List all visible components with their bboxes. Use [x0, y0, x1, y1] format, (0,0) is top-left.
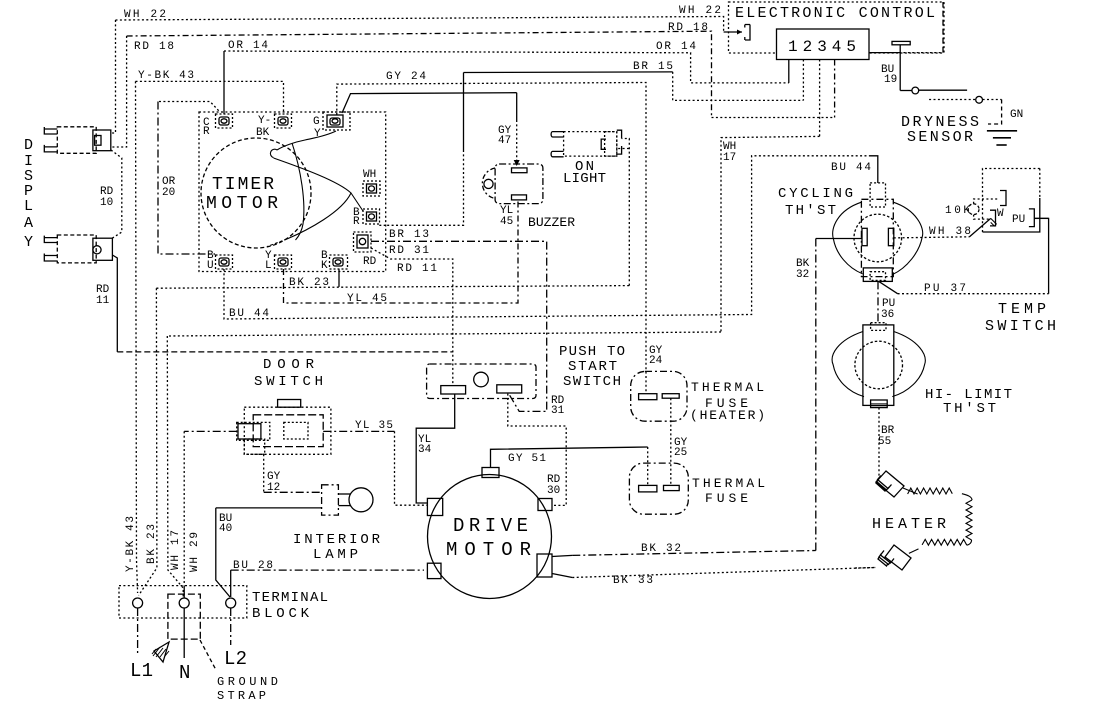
svg-text:(HEATER): (HEATER) [690, 408, 765, 423]
svg-text:Y-BK 43: Y-BK 43 [125, 516, 137, 572]
wire BR15 upper run [379, 72, 803, 225]
thermal fuse lower [629, 463, 688, 514]
wire BU44 [224, 156, 878, 319]
electronic control box [729, 2, 945, 53]
svg-text:BK 23: BK 23 [289, 277, 329, 289]
svg-text:WH 29: WH 29 [189, 532, 201, 572]
wire L2 [230, 608, 232, 645]
svg-text:BR 15: BR 15 [633, 61, 673, 73]
connector bar dryness lead [892, 41, 910, 90]
temp switch wiper W [990, 210, 997, 226]
svg-text:W: W [997, 208, 1004, 220]
wire RD30 [508, 394, 566, 506]
svg-text:L: L [265, 260, 272, 272]
wire OR14 bus [224, 51, 789, 114]
pin 3 lead [819, 60, 821, 137]
timer terminal B/U [216, 255, 233, 269]
wire N [183, 608, 185, 658]
svg-text:BU 28: BU 28 [233, 560, 273, 572]
svg-text:YL 35: YL 35 [355, 420, 393, 432]
svg-text:PU: PU [1012, 214, 1025, 226]
svg-text:10K: 10K [945, 205, 970, 217]
wire L1 [137, 608, 139, 655]
connector plug WH22 inside control [745, 25, 750, 41]
wire GY24 bus [337, 83, 646, 394]
terminal block [119, 586, 247, 640]
wire BK33 to heater tail [855, 567, 876, 570]
svg-text:TIMER: TIMER [212, 175, 274, 195]
hi-limit thermostat [832, 323, 925, 408]
svg-text:THERMAL: THERMAL [692, 476, 765, 491]
svg-text:BK 33: BK 33 [613, 575, 653, 587]
heater top plug [876, 471, 904, 497]
temp switch connector upper [1000, 191, 1006, 206]
svg-text:30: 30 [547, 485, 560, 497]
pin 1 lead [788, 60, 790, 83]
drive motor [427, 468, 552, 599]
svg-text:24: 24 [649, 355, 663, 367]
svg-text:Y-: Y- [258, 115, 271, 127]
svg-text:BUZZER: BUZZER [528, 215, 575, 230]
wire RD11 [112, 248, 452, 385]
svg-text:L2: L2 [224, 648, 247, 670]
svg-text:L1: L1 [130, 660, 153, 682]
wire PU37 [879, 218, 1049, 293]
wire YL35 [323, 431, 427, 505]
svg-text:25: 25 [674, 447, 687, 459]
wire YL45 [284, 200, 519, 303]
timer terminal Y/L [275, 255, 292, 269]
svg-text:Y: Y [24, 234, 33, 251]
svg-text:PUSH TO: PUSH TO [559, 344, 625, 360]
timer terminal C/R [216, 114, 233, 128]
wire GY47 [342, 93, 520, 166]
svg-text:10: 10 [100, 197, 113, 209]
temp switch resistor 10K [968, 199, 999, 219]
timer terminal G/Y [323, 112, 350, 130]
svg-text:K: K [321, 260, 328, 272]
wire PU36 [877, 281, 879, 322]
svg-text:LIGHT: LIGHT [563, 171, 606, 187]
wire GY12 [264, 454, 322, 492]
svg-text:TERMINAL: TERMINAL [252, 590, 328, 606]
wire RD18 top bus [111, 31, 835, 147]
svg-text:U: U [207, 260, 214, 272]
wire WH17 [167, 136, 819, 598]
timer terminal B/K [330, 255, 348, 269]
svg-text:Y-BK 43: Y-BK 43 [138, 70, 194, 82]
svg-text:BK: BK [256, 127, 270, 139]
svg-text:RD 18: RD 18 [668, 22, 708, 34]
wire BU28 [231, 570, 424, 597]
timer terminal WH [363, 181, 380, 196]
svg-text:BK 23: BK 23 [146, 524, 158, 564]
svg-text:YL 45: YL 45 [347, 293, 387, 305]
pin 2 lead [802, 60, 804, 101]
svg-text:DRIVE: DRIVE [453, 515, 528, 537]
svg-text:R: R [353, 216, 360, 228]
dryness sensor contact 2 [929, 96, 1002, 103]
svg-text:CYCLING: CYCLING [778, 186, 853, 202]
wire BR55 [878, 408, 880, 477]
svg-text:GY 24: GY 24 [386, 71, 426, 83]
wire WH38 [894, 218, 991, 238]
door switch [237, 400, 331, 455]
display connector lower [44, 235, 112, 263]
svg-text:11: 11 [96, 295, 110, 307]
svg-text:TH'ST: TH'ST [943, 401, 996, 417]
svg-text:WH 17: WH 17 [170, 530, 182, 570]
svg-text:34: 34 [418, 444, 432, 456]
svg-text:RD 18: RD 18 [134, 41, 174, 53]
wire GN [988, 100, 1002, 125]
svg-text:PU 37: PU 37 [924, 283, 966, 295]
svg-text:RD 31: RD 31 [389, 245, 429, 257]
wire RD10 between display connectors [111, 150, 122, 239]
timer terminal Y-BK [275, 114, 292, 128]
svg-text:A: A [24, 215, 33, 232]
wire BK23 [139, 139, 630, 596]
interior lamp [322, 485, 373, 515]
svg-text:WH 22: WH 22 [679, 5, 721, 17]
cycling thermostat [833, 183, 923, 282]
svg-text:WH 38: WH 38 [929, 226, 971, 238]
svg-text:19: 19 [884, 74, 897, 86]
svg-text:G: G [313, 116, 320, 128]
svg-text:WH: WH [363, 169, 376, 181]
ground strap arrow [152, 640, 216, 670]
svg-text:45: 45 [500, 216, 513, 228]
svg-text:RD 11: RD 11 [397, 263, 437, 275]
wire BU19 to dryness sensor [869, 2, 943, 53]
wire OR20 [158, 102, 219, 255]
svg-text:GN: GN [1010, 109, 1023, 121]
wire BK33 [552, 568, 876, 578]
timer cam profile [267, 131, 363, 247]
svg-text:20: 20 [162, 187, 175, 199]
svg-text:32: 32 [796, 269, 809, 281]
svg-text:17: 17 [723, 152, 736, 164]
temp switch box [983, 169, 1040, 233]
svg-text:31: 31 [551, 405, 565, 417]
svg-text:THERMAL: THERMAL [691, 380, 764, 395]
svg-text:BK 32: BK 32 [641, 543, 681, 555]
push to start switch box [427, 364, 536, 399]
svg-text:GY 51: GY 51 [508, 453, 546, 465]
timer terminal RD [354, 232, 372, 252]
svg-text:N: N [179, 662, 190, 684]
svg-text:OR 14: OR 14 [656, 41, 696, 53]
svg-text:BU 44: BU 44 [831, 162, 871, 174]
svg-text:WH 22: WH 22 [124, 9, 166, 21]
wire RD31 [371, 241, 547, 411]
wire GY25 [670, 398, 672, 485]
wire GY51 [491, 447, 648, 485]
svg-text:40: 40 [219, 523, 232, 535]
wire BK32 [552, 239, 862, 557]
svg-text:36: 36 [881, 309, 894, 321]
svg-text:L: L [24, 198, 33, 215]
svg-text:R: R [203, 126, 210, 138]
svg-text:RD: RD [363, 256, 377, 268]
wire BU40 [216, 508, 322, 597]
wire Y-BK43 [136, 81, 284, 593]
heater bottom plug [878, 545, 911, 570]
on light [551, 130, 621, 157]
dryness sensor contact 1 [900, 87, 967, 94]
svg-text:12: 12 [267, 482, 280, 494]
svg-text:47: 47 [498, 135, 511, 147]
label DISPLAY vertical [24, 137, 33, 251]
wire WH22 top bus [111, 17, 742, 134]
svg-text:Y: Y [314, 128, 321, 140]
display connector upper [44, 127, 111, 154]
terminal strip 1 2 3 4 5 [777, 29, 870, 60]
timer box [199, 112, 386, 272]
timer motor circle [201, 138, 311, 248]
thermal fuse heater [631, 371, 687, 421]
pin 4 lead [834, 60, 836, 118]
heater coil [903, 488, 972, 553]
wire WH29 door switch to terminal block [184, 431, 237, 598]
svg-text:BR 13: BR 13 [389, 229, 429, 241]
timer terminal B/R [363, 209, 380, 224]
wire YL34 [416, 394, 455, 503]
svg-text:START: START [568, 359, 617, 375]
buzzer [482, 164, 543, 204]
svg-text:55: 55 [878, 436, 891, 448]
ground symbol dryness sensor [987, 131, 1017, 145]
svg-text:BU 44: BU 44 [229, 308, 269, 320]
svg-text:D: D [24, 137, 33, 154]
svg-text:TH'ST: TH'ST [785, 203, 836, 219]
svg-text:OR 14: OR 14 [228, 40, 268, 52]
temp switch terminal PU [1029, 209, 1049, 227]
